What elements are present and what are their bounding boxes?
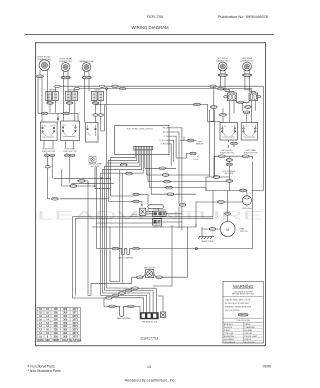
connector latch bottom <box>0 0 1 1</box>
wire leads left rear unit <box>245 71 255 94</box>
wire oven light to left <box>196 202 243 227</box>
svg-text:09/06: 09/06 <box>263 365 272 369</box>
door motor label <box>131 214 138 218</box>
warmer zone label <box>79 60 94 63</box>
svg-text:LT BR: LT BR <box>161 144 167 146</box>
svg-text:GY-GRAY: GY-GRAY <box>244 329 253 332</box>
wire leads left front unit <box>221 71 234 94</box>
svg-text:# Functional Parts: # Functional Parts <box>28 365 56 369</box>
svg-text:L2: L2 <box>72 125 74 127</box>
surface unit right front label <box>37 57 52 61</box>
relay left rear box <box>249 93 258 101</box>
switch right front surface box <box>40 122 57 141</box>
wire bus lower <box>92 223 202 229</box>
warning subtitle <box>232 291 255 295</box>
warmer zone indicator light <box>89 157 96 163</box>
wire between relay boxes <box>237 101 250 103</box>
svg-text:WARNING: WARNING <box>233 284 253 289</box>
svg-text:LT-BLUE LIGHT: LT-BLUE LIGHT <box>244 336 258 338</box>
connector EOC drop a <box>120 164 127 167</box>
wire broil runs <box>97 167 253 249</box>
label door lock switch <box>153 210 166 212</box>
connector below limiter 3 <box>92 102 99 104</box>
latch channel vertical box <box>210 121 215 175</box>
connector right of LR relay box <box>257 96 261 98</box>
svg-text:GN-GREEN: GN-GREEN <box>224 339 234 341</box>
svg-text:SURF UNIT SW: SURF UNIT SW <box>220 153 234 155</box>
svg-text:IND LIGHT: IND LIGHT <box>91 166 101 168</box>
svg-text:R-RED: R-RED <box>224 330 230 332</box>
broil element connector left <box>112 247 119 250</box>
svg-text:Y-YELLOW: Y-YELLOW <box>224 333 233 335</box>
junction circle broil wire <box>195 248 197 250</box>
svg-text:MOTOR: MOTOR <box>240 231 248 233</box>
svg-text:TERMINAL BLOCK: TERMINAL BLOCK <box>141 320 157 323</box>
svg-text:BEFORE SERVICING UNIT.: BEFORE SERVICING UNIT. <box>232 294 255 296</box>
svg-text:MM: MM <box>45 339 49 342</box>
svg-text:L1: L1 <box>65 125 67 127</box>
terminal block body <box>140 312 159 319</box>
svg-text:TEMP: TEMP <box>52 339 59 342</box>
wire leads warmer zone <box>85 71 90 123</box>
connector row LF <box>220 114 227 117</box>
connector left of LR relay <box>245 106 252 109</box>
svg-text:AWG: AWG <box>38 339 44 342</box>
electronic oven control box <box>115 126 170 155</box>
svg-text:NOTED FIRST, STRIPE NEXT.: NOTED FIRST, STRIPE NEXT. <box>225 303 250 305</box>
wire limiter1 drops <box>49 101 56 113</box>
color code header <box>236 320 250 322</box>
connector below RF switch <box>44 154 55 156</box>
svg-text:W-WHITE: W-WHITE <box>224 327 233 329</box>
connector below limiter 2 <box>66 102 73 104</box>
wire junction drop <box>106 90 108 164</box>
right side connector stack b <box>162 174 169 177</box>
svg-text:FAN MOTOR: FAN MOTOR <box>144 267 155 270</box>
connector between relays <box>238 101 244 103</box>
EOC pin label LT <box>164 136 169 138</box>
wire cluster to ground lug <box>153 225 172 312</box>
EOC bottom comb connector <box>134 146 153 150</box>
limiter right front pair box B <box>53 92 59 101</box>
connector left of LF relay <box>210 106 217 109</box>
svg-text:L1: L1 <box>44 126 46 128</box>
right side connector stack e <box>167 193 174 196</box>
connector fan left <box>209 228 216 231</box>
surface unit left rear label <box>240 57 255 62</box>
broil element coil <box>119 249 132 255</box>
bus wire L1 top <box>55 86 263 91</box>
label LF switch <box>220 150 234 154</box>
EOC pin label BR <box>163 132 169 134</box>
bake element connector right <box>127 305 134 308</box>
wires switches to hot surface stack <box>214 140 253 176</box>
svg-text:BR-BROWN: BR-BROWN <box>224 336 235 338</box>
connector row LR <box>243 111 250 114</box>
svg-text:L1: L1 <box>224 126 226 128</box>
ground lug by terminal block <box>160 312 166 318</box>
color code table <box>223 322 264 344</box>
staircase connector 2 <box>112 294 119 297</box>
right side connector stack d <box>166 186 173 189</box>
EOC pin label L2 OUT <box>159 140 169 142</box>
switch left rear box <box>241 123 257 141</box>
wire vertical pair from EOC <box>179 206 182 230</box>
fan motor label small <box>144 267 155 270</box>
relay left front box <box>228 93 237 101</box>
header rule <box>25 34 274 36</box>
connector run1 <box>78 180 85 183</box>
diagram border frame <box>36 43 266 346</box>
sensor connector 2 <box>190 152 200 161</box>
bake element connector left <box>109 305 116 308</box>
connector on L2 bus <box>194 103 201 106</box>
svg-text:L2 OUT: L2 OUT <box>159 140 166 142</box>
svg-text:WIRING DIAGRAM: WIRING DIAGRAM <box>131 25 169 30</box>
left horizontal run 3 <box>77 167 110 188</box>
relay contact box 1 <box>153 211 167 216</box>
svg-text:CABINET GND: CABINET GND <box>201 240 214 243</box>
warmer zone element <box>82 63 91 72</box>
staircase wires to terminal <box>103 288 156 312</box>
staircase connector 1 <box>106 297 113 300</box>
svg-text:TRACED WIRE: WIRE COLOR: TRACED WIRE: WIRE COLOR <box>225 299 251 302</box>
svg-text:FEFL790: FEFL790 <box>147 14 164 19</box>
fan motor wires <box>91 227 187 296</box>
wire bundle steps <box>88 288 113 296</box>
connector left front unit <box>218 74 227 77</box>
svg-text:W-BLUE: W-BLUE <box>244 339 252 341</box>
svg-text:BROIL ELEMENT: BROIL ELEMENT <box>118 258 134 260</box>
wire hot surface to bus <box>206 169 229 191</box>
bake element label <box>117 317 132 320</box>
left horizontal run 2 <box>72 181 115 183</box>
svg-text:* Non-Illustrated Parts: * Non-Illustrated Parts <box>28 369 61 373</box>
wire relays to switches <box>214 86 255 122</box>
connector below limiter 1 <box>47 102 54 104</box>
left vertical bundle to bottom <box>62 169 111 298</box>
svg-text:T-TAN/GRAY: T-TAN/GRAY <box>244 326 255 329</box>
limiter labels row <box>49 90 101 92</box>
svg-text:OR-ORANGE: OR-ORANGE <box>224 341 236 344</box>
wire fan motor left <box>202 229 220 236</box>
svg-text:ELECTRONIC OVEN CONTROL: ELECTRONIC OVEN CONTROL <box>127 128 153 130</box>
connector on L1 bus right <box>210 85 216 87</box>
bus wire L2 <box>96 105 221 123</box>
staircase connector 4 <box>125 289 132 292</box>
wire gauge table text <box>38 308 82 342</box>
connector left of LF relay box <box>224 96 228 98</box>
staircase connector 3 <box>119 292 126 295</box>
svg-text:M: M <box>226 228 229 232</box>
svg-text:BL-YELLOW: BL-YELLOW <box>244 342 255 344</box>
broil element connector right <box>133 247 140 250</box>
warning box frame <box>223 282 264 344</box>
warning divider 2 <box>223 317 264 319</box>
connector LR out <box>242 155 249 158</box>
surface unit left front label <box>216 58 231 62</box>
comb left wires continue <box>101 158 127 296</box>
warning title <box>233 284 255 289</box>
switch warmer zone box <box>86 123 99 143</box>
connector RF drop <box>45 166 50 168</box>
limiter right front pair box A <box>46 92 52 101</box>
connector below LF switch <box>231 142 238 145</box>
fan motor small box <box>145 270 153 278</box>
limiter warmer pair box A <box>91 92 97 101</box>
EOC comb drop wires <box>110 150 151 194</box>
connector above fan <box>225 213 231 216</box>
connector oven light left <box>218 201 225 204</box>
wire RR switch drop <box>44 141 74 184</box>
surface unit right front element <box>39 60 50 71</box>
EOC pin label LT BR <box>161 144 169 146</box>
right side connector stack a <box>159 167 166 170</box>
warning example connector <box>238 313 248 316</box>
svg-text:Rendered by LeadVenture, Inc.: Rendered by LeadVenture, Inc. <box>124 379 175 383</box>
warning divider 1 <box>223 296 264 298</box>
connector lower left <box>52 198 59 201</box>
left cross wire row <box>38 78 78 122</box>
label hot surface ind <box>223 170 237 175</box>
EOC pin label BK <box>163 128 169 130</box>
left horizontal run 1 <box>54 177 111 179</box>
relay contact box 2 <box>153 219 162 225</box>
svg-text:VOLT: VOLT <box>62 339 69 342</box>
svg-text:EXAMPLE: GREEN WIRE WITH: EXAMPLE: GREEN WIRE WITH <box>225 305 252 308</box>
wire vent <box>194 140 197 142</box>
switch left front box <box>220 123 238 141</box>
svg-text:COLOR CODE: COLOR CODE <box>236 320 250 322</box>
left run 3 continue <box>62 178 70 186</box>
oven light <box>242 191 251 207</box>
broil element label <box>118 258 134 260</box>
connector pair limiter3 lower <box>93 114 104 116</box>
wire limiter2 drops <box>68 101 75 122</box>
svg-text:V-VIOLET: V-VIOLET <box>244 333 253 335</box>
svg-text:BAKE ELEMENT: BAKE ELEMENT <box>117 317 132 320</box>
cabinet ground <box>198 237 214 243</box>
connector on L1 bus <box>112 85 126 90</box>
connector oven light feed <box>240 189 247 192</box>
connectors on left jogs <box>55 85 105 90</box>
limiter warmer pair box B <box>98 92 104 101</box>
door lock motor capsule <box>148 205 164 209</box>
warning paragraph <box>225 299 252 312</box>
label fan motor <box>239 228 248 234</box>
surface unit left front element <box>218 62 227 71</box>
central cluster connector a <box>133 193 139 196</box>
connector below RR switch <box>64 154 75 156</box>
svg-text:YELLOW STRIPE.: YELLOW STRIPE. <box>225 310 240 312</box>
fan motor connector right <box>156 276 163 279</box>
connector mid right B <box>226 180 233 183</box>
wire gauge table <box>37 308 81 342</box>
connector right rear unit <box>61 76 70 79</box>
svg-text:316417753: 316417753 <box>140 337 158 341</box>
right side connector stack c <box>164 180 171 183</box>
junction circle left row <box>57 118 59 120</box>
bus wire L1b <box>75 89 253 92</box>
connector warmer zone <box>82 76 91 79</box>
svg-text:DOOR: DOOR <box>194 159 200 161</box>
svg-text:L2: L2 <box>51 126 53 128</box>
svg-text:Publication No: 5995446878: Publication No: 5995446878 <box>218 14 269 19</box>
central verticals <box>120 170 122 284</box>
hot surface connector stack <box>226 159 232 169</box>
connector left row 2 <box>63 112 69 114</box>
wire right bus verticals <box>206 176 215 217</box>
switch right rear surface box <box>61 121 80 141</box>
wire leads right rear unit <box>64 71 69 121</box>
svg-text:BK-BLACK: BK-BLACK <box>224 323 234 326</box>
wire top latch <box>210 110 215 121</box>
label warmer ind light <box>88 163 102 168</box>
wires stack horizontals <box>145 168 226 194</box>
junction on L1b bus <box>106 88 108 90</box>
central cluster connector b <box>133 200 139 203</box>
connector run3 <box>70 185 77 188</box>
svg-text:13: 13 <box>147 365 151 369</box>
svg-text:SURF UNIT SW: SURF UNIT SW <box>42 151 55 153</box>
connector left row 1 <box>41 112 47 114</box>
svg-text:SENSOR: SENSOR <box>196 144 204 146</box>
svg-text:SURF UNIT SW: SURF UNIT SW <box>244 153 258 155</box>
staircase connector 5 <box>132 287 139 290</box>
oven vent label <box>196 142 204 146</box>
oven fan motor vertical wire <box>227 191 229 222</box>
wires central cluster feeds <box>109 195 149 206</box>
label right front switch <box>42 149 55 153</box>
svg-text:P-PINK: P-PINK <box>244 324 251 326</box>
svg-text:SURFACE UNIT: SURFACE UNIT <box>37 58 52 61</box>
bake element coil <box>115 306 127 316</box>
bake wires <box>104 298 140 312</box>
svg-text:SURF UNIT SW: SURF UNIT SW <box>64 151 77 153</box>
wire leads right front unit <box>40 70 48 122</box>
oven light feed wire <box>206 162 253 191</box>
terminal block label <box>141 320 157 323</box>
label LR switch <box>244 149 258 154</box>
wires central bus pair <box>73 208 214 222</box>
color code divider <box>223 321 264 323</box>
label oven light <box>242 208 254 210</box>
limiter right rear pair box B <box>72 92 78 101</box>
svg-text:GN-YL: GN-YL <box>241 314 246 316</box>
svg-text:L1: L1 <box>245 126 247 128</box>
connector mid right A <box>213 176 220 179</box>
svg-text:OVEN LIGHT: OVEN LIGHT <box>242 208 254 210</box>
EOC right pin wires <box>169 128 190 204</box>
surface unit left rear element <box>243 62 252 71</box>
label oven light switch <box>153 227 163 229</box>
convection fan motor <box>220 222 235 237</box>
limiter right rear pair box A <box>65 92 71 101</box>
surface unit right rear label <box>59 58 74 63</box>
connector left rear unit <box>243 74 252 77</box>
connector EOC drop b <box>126 172 133 175</box>
connector double line <box>179 203 186 206</box>
connector LF out <box>218 155 225 158</box>
oven vent connector <box>187 139 193 142</box>
label right rear switch <box>64 148 77 153</box>
surface unit right rear element <box>61 63 70 72</box>
connector right front unit <box>37 75 44 78</box>
door lock cam box <box>140 208 146 215</box>
svg-text:UL STYLE: UL STYLE <box>69 339 81 342</box>
connector on L1b bus right <box>217 87 223 89</box>
wire L1 bus drop right <box>252 86 264 190</box>
fan motor connector left <box>137 276 144 279</box>
wire limiter3 drops <box>94 101 104 132</box>
wire RF switch drop <box>48 157 109 199</box>
